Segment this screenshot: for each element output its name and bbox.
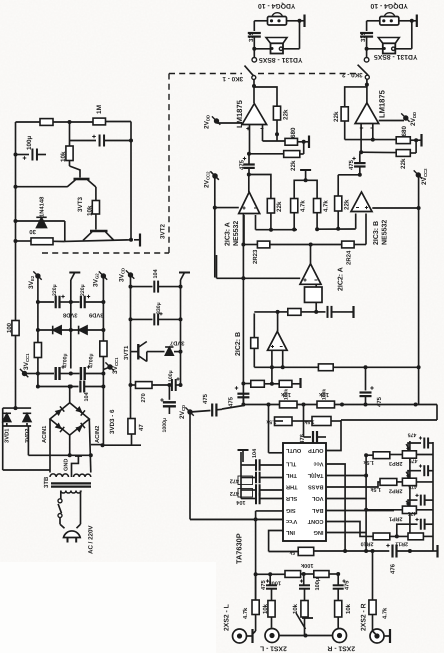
svg-text:2XS1 - R: 2XS1 - R xyxy=(327,645,355,652)
svg-text:22k: 22k xyxy=(400,158,407,169)
svg-text:4700µ: 4700µ xyxy=(62,353,68,368)
svg-text:475: 475 xyxy=(408,510,417,516)
svg-text:YDQG4 - 10: YDQG4 - 10 xyxy=(370,2,408,9)
svg-text:3VT2: 3VT2 xyxy=(160,223,167,239)
svg-text:1N4148: 1N4148 xyxy=(38,196,45,217)
svg-text:INL: INL xyxy=(285,529,295,535)
svg-text:2IC3: A: 2IC3: A xyxy=(225,222,232,246)
svg-text:4700µ: 4700µ xyxy=(88,353,94,368)
svg-text:3K0 - 1: 3K0 - 1 xyxy=(222,75,243,82)
svg-text:22k: 22k xyxy=(290,160,297,171)
svg-text:475: 475 xyxy=(348,159,355,170)
svg-text:V′cc: V′cc xyxy=(286,518,297,524)
svg-text:475: 475 xyxy=(227,396,234,407)
svg-text:2RP1: 2RP1 xyxy=(389,515,403,521)
svg-text:THR: THR xyxy=(286,484,298,490)
svg-text:3VD9: 3VD9 xyxy=(88,311,103,318)
svg-text:4.7k: 4.7k xyxy=(322,200,329,212)
svg-text:E: E xyxy=(40,222,44,229)
svg-text:475: 475 xyxy=(376,396,383,407)
svg-text:3VD1: 3VD1 xyxy=(3,428,10,443)
svg-text:2IC2: A: 2IC2: A xyxy=(338,267,345,291)
svg-text:100µ: 100µ xyxy=(26,135,33,150)
svg-text:30: 30 xyxy=(29,228,36,235)
svg-text:3VT3: 3VT3 xyxy=(77,196,84,212)
svg-text:ACIN2: ACIN2 xyxy=(94,426,101,443)
svg-text:475: 475 xyxy=(202,393,209,404)
svg-text:3VD2: 3VD2 xyxy=(24,428,31,443)
svg-text:104: 104 xyxy=(235,499,245,505)
svg-text:475: 475 xyxy=(409,457,418,463)
svg-text:CONT: CONT xyxy=(307,518,323,524)
svg-text:TA(I)L: TA(I)L xyxy=(307,472,323,479)
svg-text:Vcc: Vcc xyxy=(314,461,324,467)
svg-text:ACIN1: ACIN1 xyxy=(41,425,48,443)
svg-text:3K0 - 2: 3K0 - 2 xyxy=(342,71,363,78)
svg-text:VOL: VOL xyxy=(311,495,323,501)
svg-text:1000µ: 1000µ xyxy=(162,418,168,433)
svg-text:YD131 - 8SX5: YD131 - 8SX5 xyxy=(259,56,303,63)
svg-text:4.7k: 4.7k xyxy=(299,200,306,212)
svg-text:GND: GND xyxy=(64,459,70,471)
svg-text:680: 680 xyxy=(401,125,408,136)
svg-text:475: 475 xyxy=(345,581,351,590)
svg-text:2RP2: 2RP2 xyxy=(389,487,403,493)
svg-text:2RP3: 2RP3 xyxy=(389,460,403,466)
svg-text:10k: 10k xyxy=(345,603,352,614)
svg-text:2R24: 2R24 xyxy=(345,250,352,265)
svg-text:3VD3 - 6: 3VD3 - 6 xyxy=(109,409,116,434)
svg-text:3VD8: 3VD8 xyxy=(62,311,77,318)
svg-text:4.7k: 4.7k xyxy=(381,607,388,619)
svg-text:680: 680 xyxy=(290,127,297,138)
svg-text:3VT1: 3VT1 xyxy=(123,345,130,360)
svg-text:220µ: 220µ xyxy=(80,284,86,296)
svg-text:2IC2: B: 2IC2: B xyxy=(235,332,242,356)
svg-text:22k: 22k xyxy=(276,201,283,212)
svg-text:10k: 10k xyxy=(318,391,329,398)
svg-text:270: 270 xyxy=(141,393,147,402)
svg-text:BASS: BASS xyxy=(308,484,324,490)
svg-text:1.5k: 1.5k xyxy=(371,486,382,492)
svg-text:10k: 10k xyxy=(292,603,299,614)
svg-text:2XS1 - L: 2XS1 - L xyxy=(260,645,287,652)
svg-text:476: 476 xyxy=(389,563,396,574)
svg-text:475: 475 xyxy=(408,431,417,437)
svg-text:BAL: BAL xyxy=(311,507,323,513)
svg-text:2R10: 2R10 xyxy=(361,540,374,546)
svg-text:22k: 22k xyxy=(344,199,351,210)
svg-text:2XS2 - R: 2XS2 - R xyxy=(361,603,368,631)
svg-text:220µ: 220µ xyxy=(52,284,58,296)
svg-text:104: 104 xyxy=(153,268,159,278)
svg-text:22k: 22k xyxy=(283,109,290,120)
svg-text:OUTL: OUTL xyxy=(285,447,301,453)
svg-text:2XS2 - L: 2XS2 - L xyxy=(224,604,231,631)
svg-text:47: 47 xyxy=(138,424,145,431)
svg-text:LM1875: LM1875 xyxy=(378,89,387,118)
svg-text:100k: 100k xyxy=(300,562,313,569)
svg-text:100µ: 100µ xyxy=(315,578,321,591)
svg-text:2R11: 2R11 xyxy=(395,540,408,546)
svg-text:AC / 220V: AC / 220V xyxy=(88,525,95,554)
svg-text:YD131 - 8SX5: YD131 - 8SX5 xyxy=(374,53,418,60)
svg-text:475: 475 xyxy=(261,580,267,590)
svg-text:NE5532: NE5532 xyxy=(382,220,389,245)
svg-text:3VD7: 3VD7 xyxy=(170,339,185,346)
svg-text:SIG: SIG xyxy=(286,507,296,513)
svg-text:YDQG4 - 10: YDQG4 - 10 xyxy=(258,2,296,9)
svg-text:4.7k: 4.7k xyxy=(242,607,249,619)
svg-text:22k: 22k xyxy=(333,111,340,122)
svg-text:10k: 10k xyxy=(280,391,291,398)
svg-text:TLL: TLL xyxy=(285,461,296,467)
svg-text:100µ: 100µ xyxy=(168,370,174,382)
svg-text:TA7630P: TA7630P xyxy=(235,533,244,564)
svg-text:104: 104 xyxy=(252,448,258,458)
svg-text:1M: 1M xyxy=(96,105,103,114)
svg-text:ING: ING xyxy=(314,529,324,535)
svg-text:104: 104 xyxy=(84,391,90,401)
svg-text:2R23: 2R23 xyxy=(252,249,259,264)
svg-text:3TB: 3TB xyxy=(43,476,50,488)
svg-text:OUTP: OUTP xyxy=(308,447,324,453)
svg-text:SLR: SLR xyxy=(286,495,297,501)
svg-text:1.5k: 1.5k xyxy=(289,549,299,555)
svg-text:THL: THL xyxy=(285,472,296,478)
svg-text:1.5k: 1.5k xyxy=(364,459,375,465)
svg-text:475: 475 xyxy=(408,483,417,489)
svg-text:NE5532: NE5532 xyxy=(233,221,240,246)
svg-text:2IC3: B: 2IC3: B xyxy=(373,221,380,245)
